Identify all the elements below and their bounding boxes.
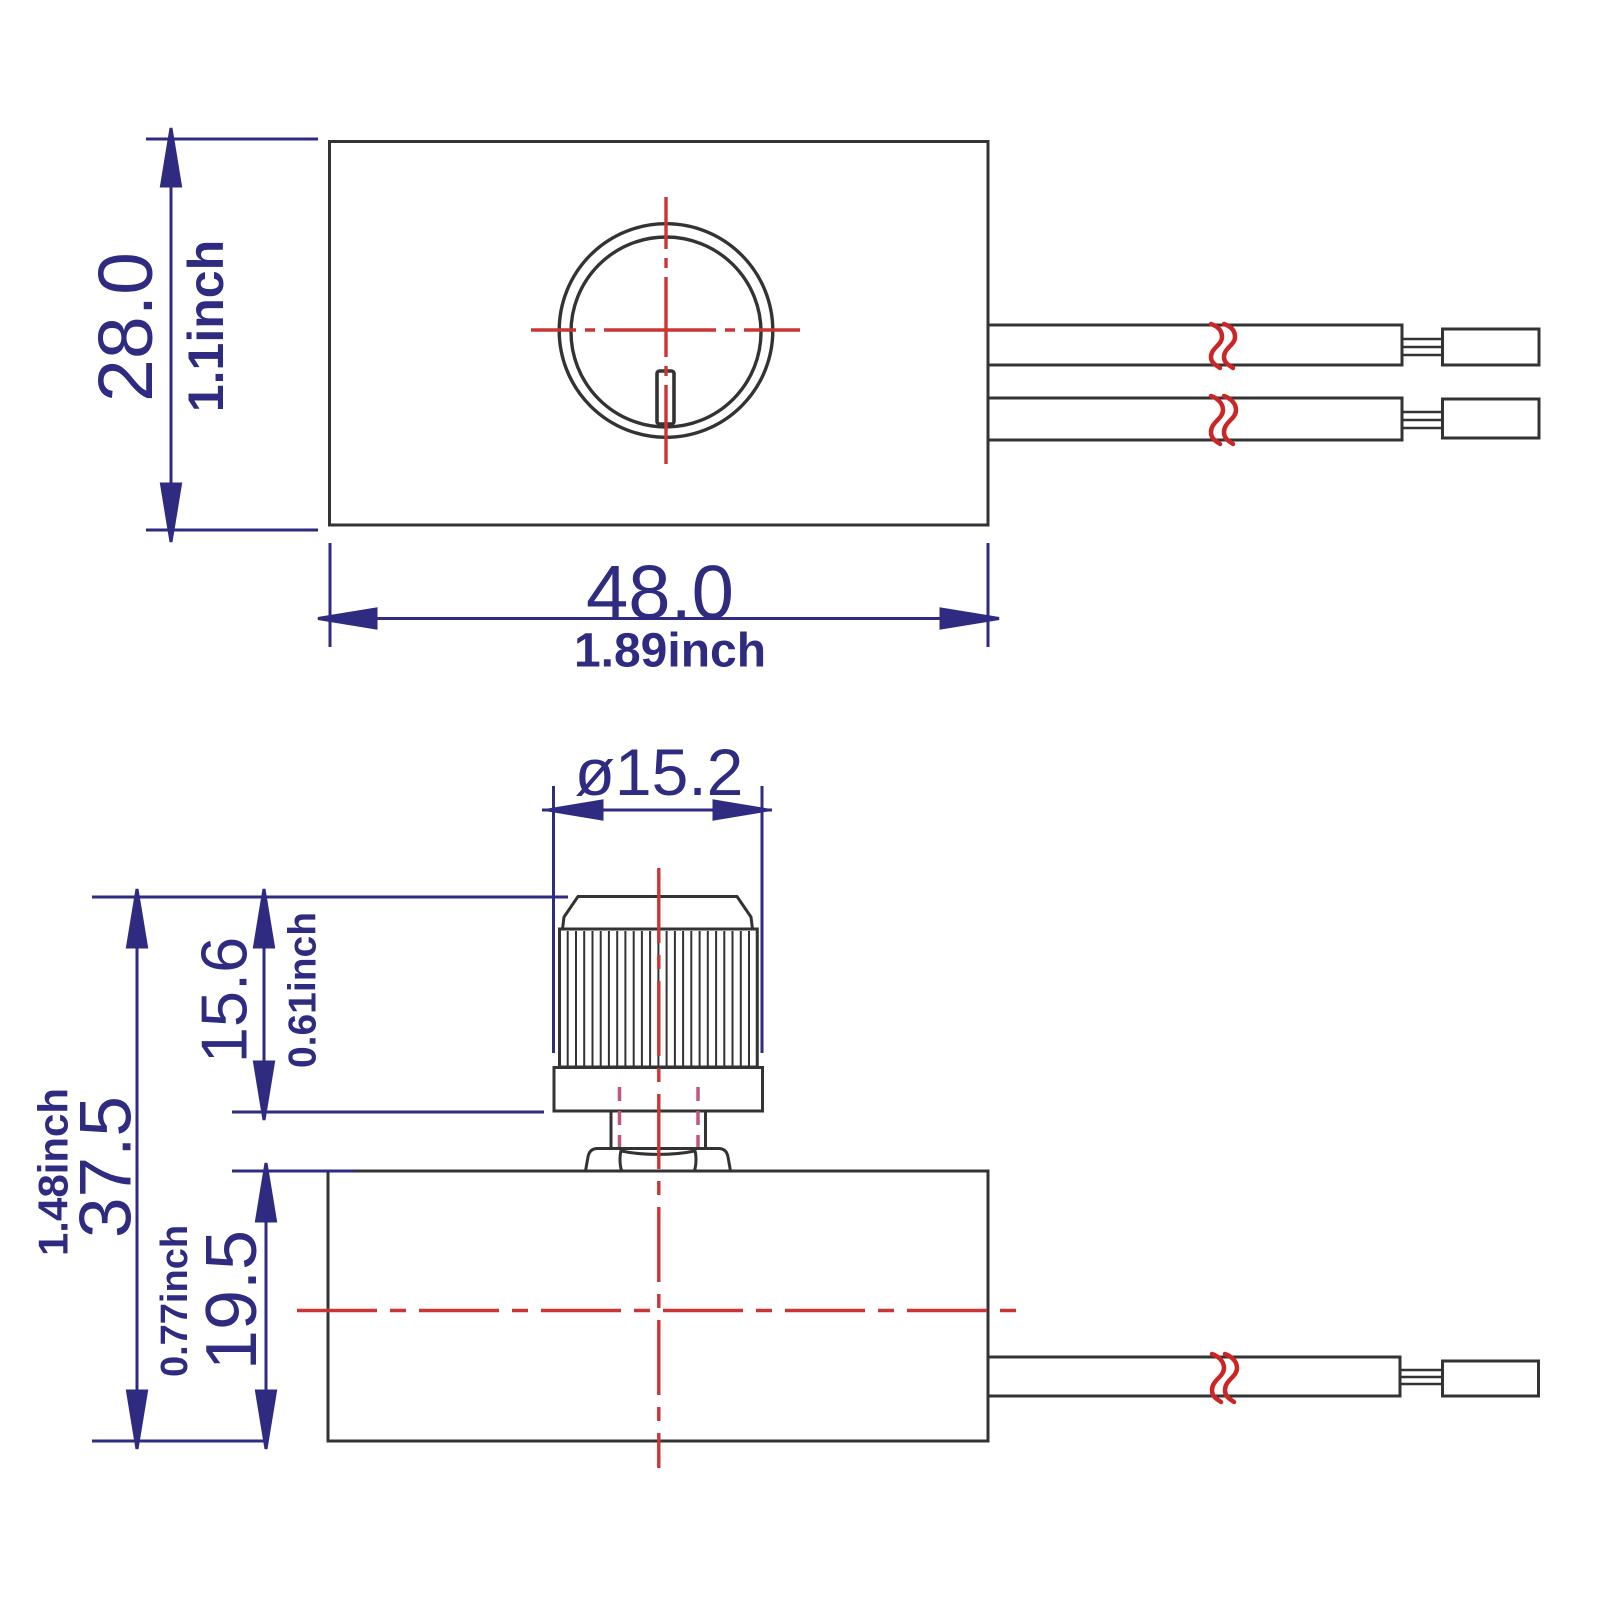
wire 1 crimp lines [1402,339,1443,355]
svg-text:37.5: 37.5 [66,1096,147,1238]
dia 15.2 extension lines [554,786,763,1053]
knob inner circle (top view) [571,237,761,427]
top view center line vertical [664,197,667,464]
top view center line horizontal [531,328,800,331]
svg-text:48.0: 48.0 [586,551,734,636]
knob cap (side view) [563,897,753,930]
side wire crimp lines [1400,1370,1443,1384]
side view body rectangle [328,1171,988,1441]
dimension 15.6 line and arrows [255,889,274,1120]
19.5 top extension line [232,1170,356,1173]
svg-text:1.89inch: 1.89inch [574,625,766,678]
37.5 / 15.6 top extension line [92,896,568,899]
knob indicator slot [657,371,674,424]
wire 1 break symbol [1211,324,1235,368]
15.6 bottom extension line [232,1111,544,1114]
dia 15.2 dimension line and arrows [542,801,772,819]
svg-text:15.6: 15.6 [188,937,261,1064]
side view center line vertical [657,868,660,1468]
dimension 48.0 extension lines [330,543,988,647]
top view body rectangle [330,142,989,526]
dimension 19.5 line and arrows [257,1163,276,1449]
mounting hex nut [586,1149,731,1172]
wire 1 (top view upper lead) [988,325,1402,365]
dimension 28.0 extension lines [146,139,318,530]
threaded stem lines [611,1111,706,1150]
dimension 48.0 line and arrows [318,609,999,628]
svg-text:1.48inch: 1.48inch [30,1088,77,1256]
side wire break symbol [1212,1354,1237,1402]
stem hidden lines (pink dashed) [620,1087,699,1170]
svg-text:28.0: 28.0 [83,252,169,402]
knob outer circle (top view) [559,224,773,438]
side view center line horizontal [297,1309,1017,1312]
knob knurled barrel (side view) [560,929,758,1067]
svg-text:ø15.2: ø15.2 [575,735,744,809]
knurl ridges [568,931,749,1066]
svg-text:0.77inch: 0.77inch [154,1225,196,1377]
side view wire lead [988,1357,1400,1396]
wire 2 crimp lines [1402,412,1443,428]
wire 2 terminal [1443,399,1540,438]
dimension 28.0 line and arrows [162,128,181,542]
svg-text:1.1inch: 1.1inch [178,240,234,412]
37.5 / 19.5 bottom extension line [92,1440,268,1443]
side wire terminal [1443,1361,1539,1396]
svg-text:19.5: 19.5 [192,1230,272,1370]
wire 2 (top view lower lead) [988,398,1402,440]
wire 1 terminal [1443,329,1540,365]
svg-text:0.61inch: 0.61inch [282,912,325,1068]
knob collar (side view) [554,1068,763,1112]
hex nut facet lines [620,1149,696,1171]
dimension 37.5 line and arrows [128,889,147,1449]
wire 2 break symbol [1211,396,1236,444]
